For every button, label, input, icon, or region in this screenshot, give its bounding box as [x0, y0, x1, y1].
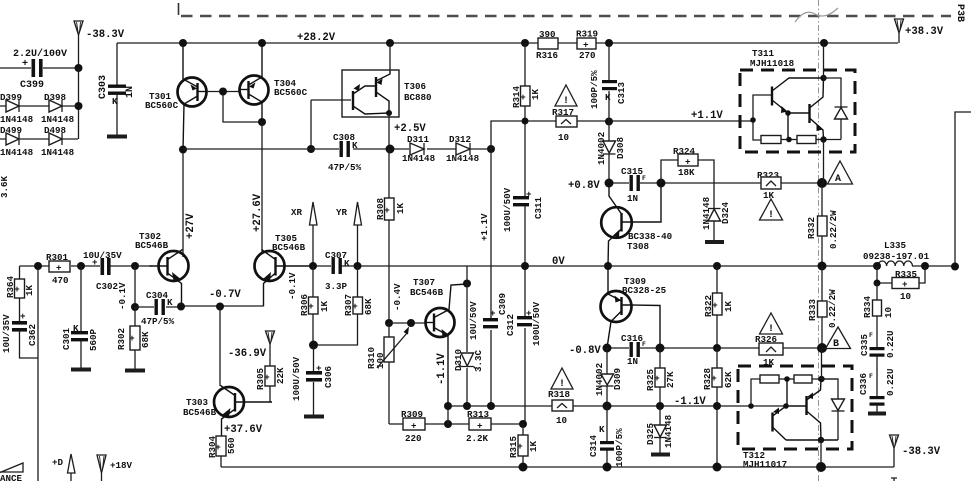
svg-text:ANCE: ANCE: [0, 473, 23, 481]
svg-text:BC560C: BC560C: [274, 87, 308, 98]
warning triangle below R323: [760, 199, 783, 221]
node junction R309/R313: [444, 420, 452, 428]
resistor R364 1K: [5, 266, 35, 321]
resistor R335 10: [877, 266, 925, 302]
node rail junction R316: [521, 39, 529, 47]
node rail junction R328: [713, 463, 722, 472]
capacitor C314 100P/5% K: [588, 406, 625, 467]
node junction R313/R315/C312: [519, 420, 527, 428]
node junction base/wiper: [407, 319, 415, 327]
node T311 inner junction Rab: [786, 137, 792, 143]
node junction C313/D308 on +1.1V line: [605, 118, 613, 126]
svg-text:C303: C303: [98, 75, 109, 99]
svg-text:F: F: [642, 341, 646, 348]
resistor R323 1K fusible: [757, 170, 781, 201]
diode T312 protection: [822, 379, 845, 440]
wire input line y=266: [20, 265, 153, 267]
svg-text:1K: 1K: [319, 300, 330, 312]
svg-text:K: K: [344, 258, 350, 269]
node junction R335/R334: [874, 280, 881, 287]
inductor L335 09238-197.01: [863, 240, 930, 266]
node junction L335 left: [873, 262, 881, 270]
node junction diode row: [75, 102, 83, 110]
node A triangle: [828, 161, 853, 185]
capacitor C315 1N: [621, 166, 646, 204]
transistor T305 BC546B: [255, 233, 313, 307]
svg-text:XR: XR: [291, 207, 303, 218]
svg-text:BC328-25: BC328-25: [622, 285, 667, 296]
resistor R305 22K: [255, 366, 286, 402]
wire +0.8V line y=183: [609, 182, 822, 184]
svg-text:09238-197.01: 09238-197.01: [863, 251, 930, 262]
svg-text:1N4148: 1N4148: [0, 114, 34, 125]
resistor R334 10: [862, 283, 894, 347]
capacitor C336 0.22U: [858, 368, 896, 413]
wire tick at left end of dashed border: [178, 3, 180, 15]
node junction -38.3V / C399: [75, 64, 83, 72]
wire T307 emitter to bias line: [447, 406, 449, 424]
svg-text:1N4148: 1N4148: [0, 147, 34, 158]
capacitor C306 100U/50V: [291, 345, 334, 417]
transistor T302 BC546B: [135, 231, 189, 307]
transistor T312 MJH11017 module: [738, 366, 852, 470]
svg-text:F: F: [642, 175, 646, 182]
svg-text:22K: 22K: [275, 367, 286, 384]
svg-text:MJH11018: MJH11018: [750, 58, 795, 69]
diode D324 1N4148: [701, 196, 731, 240]
wire T311 input: [753, 95, 772, 140]
svg-text:K: K: [167, 297, 173, 308]
trimmer R310 100: [366, 323, 409, 424]
resistor T311 emitter R a: [761, 113, 797, 144]
svg-text:-36.9V: -36.9V: [228, 348, 267, 360]
node 0V junction R332/R333: [818, 262, 827, 271]
svg-text:+: +: [411, 421, 417, 432]
svg-text:+27.6V: +27.6V: [252, 193, 264, 232]
svg-text:-38.3V: -38.3V: [86, 29, 125, 41]
svg-text:+0.8V: +0.8V: [568, 180, 600, 192]
transistor T301 BC560C: [145, 43, 207, 150]
svg-text:K: K: [112, 96, 118, 107]
transistor T309 BC328-25: [601, 266, 667, 348]
transistor T306 BC880 darlington box: [311, 43, 432, 149]
svg-text:+: +: [583, 40, 589, 51]
svg-text:-38.3V: -38.3V: [902, 446, 941, 458]
resistor T311 emitter R b: [797, 136, 841, 144]
svg-text:560: 560: [226, 437, 237, 454]
svg-text:1N: 1N: [125, 86, 136, 98]
svg-text:47P/5%: 47P/5%: [141, 316, 175, 327]
svg-text:1K: 1K: [395, 202, 406, 214]
transistor T311 inner Q1: [772, 78, 824, 113]
power +38.3V arrow: [895, 19, 944, 43]
diode D309 1N4002: [594, 348, 623, 406]
resistor R308 1K: [375, 149, 406, 323]
wire T311 collector to rail: [823, 43, 825, 78]
svg-text:18K: 18K: [678, 167, 695, 178]
potentiometer BALANCE (cut off): [0, 463, 23, 481]
resistor R302 68K: [116, 307, 151, 371]
svg-text:F: F: [869, 332, 873, 339]
svg-text:1N4148: 1N4148: [402, 153, 436, 164]
node YR arrow: [336, 202, 362, 266]
wire faint scan mark: [795, 8, 838, 22]
svg-text:1N: 1N: [627, 356, 638, 367]
wire 0V main line: [312, 112, 971, 266]
svg-text:1N4148: 1N4148: [663, 414, 674, 448]
svg-text:BC880: BC880: [404, 92, 432, 103]
resistor R322 1K: [703, 266, 734, 348]
svg-text:100U/50V: 100U/50V: [502, 187, 513, 232]
svg-text:1N4148: 1N4148: [446, 153, 480, 164]
svg-text:1N4148: 1N4148: [41, 147, 75, 158]
wire T301/T304 base tie: [207, 92, 262, 123]
capacitor C301 560P: [61, 266, 99, 370]
node junction L335 right: [921, 262, 929, 270]
svg-text:10: 10: [883, 307, 894, 318]
node 0V junction R322: [713, 262, 721, 270]
node junction C309: [487, 402, 495, 410]
resistor R304 560: [207, 424, 263, 467]
resistor R332 0.22/2W: [806, 183, 839, 266]
svg-text:+: +: [902, 279, 908, 290]
svg-text:1N4002: 1N4002: [596, 132, 607, 165]
node junction B: [817, 343, 827, 353]
svg-text:R328: R328: [702, 367, 713, 390]
diode D398 1N4148: [41, 92, 75, 125]
svg-text:+: +: [20, 311, 26, 322]
svg-text:+: +: [129, 333, 135, 344]
svg-text:C311: C311: [533, 196, 544, 219]
svg-text:+1.1V: +1.1V: [691, 110, 723, 122]
wire +27V column (T301 collector to T302): [182, 150, 184, 257]
capacitor C302 10U/35V: [83, 250, 122, 292]
wire -0.7V emitter line: [181, 305, 263, 307]
wire +2.5V line: [183, 148, 491, 150]
diode D312 1N4148: [446, 134, 480, 164]
node junction C315/R324/T308 collector: [657, 179, 666, 188]
capacitor C304 47P/5% K: [135, 290, 181, 327]
svg-text:R307: R307: [343, 294, 354, 316]
node junction R322/R328: [713, 344, 721, 352]
node T312 emitter junction: [818, 376, 824, 382]
svg-text:+37.6V: +37.6V: [224, 424, 263, 436]
capacitor C316 1N: [621, 333, 646, 367]
node T312 collector junction: [818, 437, 824, 443]
svg-text:0.22/2W: 0.22/2W: [828, 210, 839, 249]
node junction T303 collector: [216, 303, 224, 311]
svg-text:MJH11017: MJH11017: [743, 459, 787, 470]
svg-text:1N4148: 1N4148: [701, 196, 712, 230]
wire -0.8V line y=348: [607, 347, 822, 349]
node T301 collector junction: [179, 146, 187, 154]
node rail junction R315: [519, 463, 528, 472]
svg-text:1N: 1N: [627, 193, 638, 204]
capacitor C303 K 1N: [98, 43, 136, 135]
svg-text:R306: R306: [299, 294, 310, 316]
node B triangle: [826, 327, 851, 350]
svg-text:1K: 1K: [528, 440, 539, 452]
svg-text:100U/50V: 100U/50V: [291, 356, 302, 401]
svg-text:D308: D308: [615, 136, 626, 159]
wire T312 emitter to B node: [821, 348, 823, 379]
node T311 collector junction: [820, 75, 826, 81]
diode D310 zener 3.3C: [453, 349, 484, 372]
transistor T303 BC546B: [183, 386, 272, 437]
transistor T308 BC338-40: [601, 183, 672, 266]
svg-text:+1.1V: +1.1V: [479, 213, 490, 241]
svg-text:D312: D312: [449, 134, 471, 145]
svg-text:D310: D310: [453, 349, 464, 371]
resistor R301 470: [46, 252, 70, 286]
svg-text:0.22/2W: 0.22/2W: [827, 289, 838, 328]
resistor R313 2.2K: [466, 409, 491, 444]
svg-text:-1.1V: -1.1V: [674, 396, 706, 408]
transistor T311 MJH11018 module: [740, 48, 855, 152]
node junction R328 crossing: [713, 402, 721, 410]
svg-text:-1.1V: -1.1V: [436, 353, 448, 385]
svg-text:C336: C336: [858, 373, 869, 395]
svg-text:1K: 1K: [763, 190, 775, 201]
svg-text:BC546B: BC546B: [272, 242, 306, 253]
svg-text:C399: C399: [20, 80, 44, 91]
wire T307 base: [389, 322, 425, 324]
node junction C304/R302: [131, 303, 139, 311]
node junction R306/R307/C306: [309, 341, 318, 350]
node junction YR / C307: [354, 262, 362, 270]
capacitor C308 47P/5%: [328, 132, 362, 173]
node rail junction C313: [605, 39, 613, 47]
node junction output corner: [951, 263, 959, 271]
svg-text:R364: R364: [5, 275, 16, 298]
transistor T311 inner Q2: [788, 78, 824, 139]
svg-text:+38.3V: +38.3V: [905, 26, 944, 38]
svg-text:BC546B: BC546B: [135, 240, 169, 251]
svg-text:+: +: [685, 157, 691, 168]
svg-text:R332: R332: [806, 217, 817, 239]
diode D325 1N4148: [645, 406, 674, 455]
resistor R315 1K: [508, 424, 539, 467]
capacitor C307 3.3P K: [325, 250, 350, 292]
svg-text:D324: D324: [720, 201, 731, 224]
diode D308 1N4002: [596, 121, 626, 183]
svg-text:T308: T308: [627, 241, 650, 252]
node T312 inner base junction: [783, 403, 789, 409]
resistor R333 0.22/2W: [807, 266, 838, 348]
svg-text:68K: 68K: [363, 298, 374, 315]
resistor R325 27K: [645, 348, 676, 406]
wire T312 collector to -38.3V rail: [820, 440, 822, 467]
svg-text:T306: T306: [404, 81, 426, 92]
svg-text:3.3C: 3.3C: [473, 349, 484, 372]
node junction A: [817, 178, 827, 188]
svg-text:0V: 0V: [552, 256, 565, 268]
svg-text:D498: D498: [44, 125, 67, 136]
svg-text:L335: L335: [884, 240, 907, 251]
svg-text:D398: D398: [44, 92, 67, 103]
node T304 collector junction: [258, 118, 266, 126]
node junction R301/C301: [77, 262, 85, 270]
capacitor C312 100U/50V: [505, 266, 542, 424]
svg-text:2.2K: 2.2K: [466, 433, 489, 444]
svg-text:!: !: [768, 210, 774, 221]
svg-text:0.22U: 0.22U: [885, 330, 896, 358]
node rail junction T306: [386, 39, 394, 47]
transistor T307 BC546B: [410, 277, 467, 406]
node T306 emitter junction: [386, 145, 395, 154]
capacitor C313 100P/5%: [589, 43, 627, 121]
svg-text:+: +: [490, 308, 496, 319]
svg-text:C301: C301: [61, 327, 72, 350]
wire +28.2V rail: [117, 42, 898, 44]
svg-text:+D: +D: [52, 457, 64, 468]
svg-text:560P: 560P: [88, 328, 99, 351]
resistor R309 220: [401, 409, 425, 444]
node rail junction T311: [820, 39, 828, 47]
svg-text:F: F: [869, 373, 873, 380]
node +D arrow: [52, 454, 75, 481]
resistor R307 68K: [314, 266, 374, 345]
svg-text:R316: R316: [536, 50, 558, 61]
wire D310 column: [466, 266, 468, 406]
svg-text:R334: R334: [862, 295, 873, 318]
svg-text:3.6K: 3.6K: [0, 175, 10, 198]
wire T311 output to A node: [823, 140, 825, 184]
svg-text:270: 270: [579, 50, 596, 61]
diode D499 1N4148: [0, 125, 78, 158]
wire bias line y=424: [389, 423, 523, 425]
resistor R316 390: [536, 29, 558, 61]
svg-text:R305: R305: [255, 367, 266, 390]
resistor R306 1K: [299, 266, 330, 345]
svg-text:+: +: [56, 263, 62, 274]
node XR arrow: [291, 202, 317, 266]
node T311 output junction: [820, 136, 826, 142]
capacitor C311 100U/50V: [502, 187, 544, 266]
wire -1.1V line: [448, 405, 730, 407]
svg-text:C312: C312: [505, 314, 516, 336]
transistor T312 inner Q2: [786, 379, 821, 440]
power -38.3V arrow top left: [74, 21, 125, 68]
capacitor C335 0.22U: [859, 330, 896, 396]
svg-text:D309: D309: [612, 368, 623, 390]
diode D399 1N4148: [0, 92, 78, 125]
svg-text:YR: YR: [336, 207, 348, 218]
svg-text:1K: 1K: [24, 284, 35, 296]
svg-text:10: 10: [556, 415, 567, 426]
node junction D310: [463, 402, 471, 410]
svg-text:0.22U: 0.22U: [885, 368, 896, 396]
power -36.9V arrow: [228, 331, 275, 366]
svg-text:+: +: [92, 257, 98, 268]
node junction T309 base: [603, 344, 612, 353]
svg-text:62K: 62K: [723, 371, 734, 388]
svg-text:B: B: [833, 339, 839, 350]
svg-text:BC546B: BC546B: [410, 287, 444, 298]
node junction R308/R310/T307 base: [385, 319, 393, 327]
node junction D309/C314 on -1.1V: [603, 402, 612, 411]
node T311 inner base2 junction: [785, 110, 791, 116]
node junction R314/C311 on +1.1V line: [522, 118, 529, 125]
wire T306 base column: [310, 100, 312, 149]
node base junction: [219, 88, 227, 96]
svg-text:220: 220: [405, 433, 422, 444]
resistor R326 1K fusible: [755, 334, 783, 368]
svg-text:3.3P: 3.3P: [325, 281, 348, 292]
svg-text:100U/50V: 100U/50V: [531, 301, 542, 346]
node junction T308 emitter on 0V: [604, 262, 612, 270]
svg-text:+27V: +27V: [185, 213, 197, 239]
ground for D324: [705, 240, 724, 244]
svg-text:C314: C314: [588, 434, 599, 457]
capacitor C309 10U/50V: [468, 149, 508, 406]
capacitor C399 2.2U/100V: [0, 48, 78, 91]
svg-text:-0.4V: -0.4V: [392, 283, 403, 311]
diode D311 1N4148: [402, 134, 436, 164]
svg-text:R333: R333: [807, 298, 818, 321]
resistor T312 R b: [794, 375, 838, 383]
wire T312 inner collector line: [786, 439, 838, 441]
wire +27.6V column (T304 collector to T305): [261, 122, 263, 252]
svg-text:A: A: [835, 174, 841, 185]
power arrow fragment bottom edge: [891, 478, 897, 481]
svg-text:+18V: +18V: [110, 460, 133, 471]
transistor T312 inner Q1: [773, 379, 788, 440]
node junction D308/C315/T308 base: [605, 179, 614, 188]
node rail junction T301: [179, 39, 187, 47]
svg-text:47P/5%: 47P/5%: [328, 162, 362, 173]
svg-text:100P/5%: 100P/5%: [589, 70, 600, 109]
svg-text:-0.1V: -0.1V: [117, 282, 128, 310]
wire input riser from balance pot: [37, 266, 39, 481]
node input junction: [34, 262, 42, 270]
node junction R325/D325 on -1.1V: [656, 402, 664, 410]
node T306 base junction: [307, 145, 315, 153]
wire +1.1V riser: [491, 121, 753, 149]
svg-text:1N4148: 1N4148: [41, 114, 75, 125]
resistor R314 1K: [511, 43, 541, 196]
svg-text:C306: C306: [323, 366, 334, 388]
capacitor C362 10U/35V: [1, 311, 38, 358]
power -38.3V arrow bottom right: [890, 435, 941, 467]
svg-text:1K: 1K: [723, 300, 734, 312]
wire dashed top border line: [181, 15, 951, 18]
node junction T307 emitter: [444, 402, 452, 410]
svg-text:100P/5%: 100P/5%: [614, 428, 625, 467]
resistor T312 R a: [760, 375, 794, 383]
wire T312 input: [730, 379, 786, 406]
svg-text:R314: R314: [511, 85, 522, 108]
warning triangle below R323: [760, 313, 783, 335]
svg-text:R322: R322: [703, 295, 714, 317]
node rail junction T312: [816, 462, 826, 472]
node junction XR / T305 collector: [309, 262, 317, 270]
svg-text:R302: R302: [116, 328, 127, 350]
wire -38.3V bottom rail: [221, 466, 894, 468]
svg-text:C302: C302: [96, 281, 118, 292]
svg-text:10U/50V: 10U/50V: [468, 301, 479, 340]
svg-text:K: K: [605, 92, 611, 103]
svg-text:470: 470: [52, 275, 69, 286]
svg-text:-0.1V: -0.1V: [287, 272, 298, 300]
node +1.1V junction after D312: [487, 145, 495, 153]
svg-text:-0.8V: -0.8V: [569, 345, 601, 357]
node junction C316/R325/T309 collector: [656, 344, 665, 353]
svg-text:K: K: [352, 140, 358, 151]
resistor R324 18K: [661, 146, 714, 209]
svg-text:C362: C362: [27, 324, 38, 346]
resistor R319 270: [576, 29, 598, 62]
